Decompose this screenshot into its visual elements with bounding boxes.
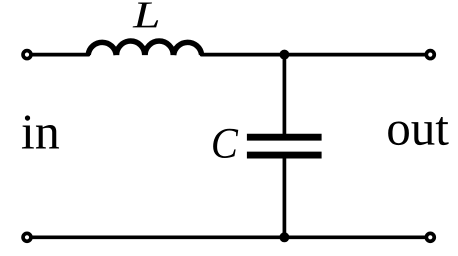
terminal: input bottom (open circle) bbox=[23, 233, 31, 241]
node junction dot (bottom) bbox=[279, 232, 289, 242]
terminal: output bottom (open circle) bbox=[426, 233, 434, 241]
label in (input port) bbox=[22, 115, 59, 148]
wire: top node down to capacitor top plate bbox=[283, 55, 287, 135]
label C (capacitor value) bbox=[213, 129, 238, 158]
terminal: input top (open circle) bbox=[23, 51, 31, 59]
inductor L (4 humps) bbox=[88, 41, 201, 55]
wire: inductor to top-right output terminal (through node) bbox=[202, 53, 431, 57]
label out (output port) bbox=[388, 117, 448, 145]
wire: top-left from input terminal to inductor bbox=[27, 53, 89, 57]
capacitor C bottom plate bbox=[247, 152, 322, 159]
wire: bottom rail from input terminal to output terminal bbox=[27, 235, 430, 239]
capacitor C top plate bbox=[247, 134, 322, 141]
node junction dot (top) bbox=[279, 50, 289, 60]
label L (inductor value) bbox=[133, 3, 159, 28]
wire: capacitor bottom plate down to bottom node bbox=[283, 158, 287, 237]
terminal: output top (open circle) bbox=[426, 51, 434, 59]
